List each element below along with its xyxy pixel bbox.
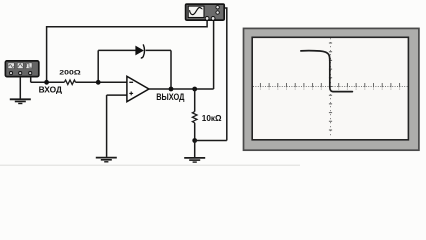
ground (op-amp plus input) [96,158,117,162]
node bottom junction [192,138,197,143]
wire output node down to resistor [194,89,196,112]
ground (below 10кΩ) [184,158,205,162]
wire bottom junction to scope ground lead [195,140,227,142]
svg-text:ВХОД: ВХОД [39,86,63,95]
wire output [149,88,214,90]
wire feedback right vertical [170,50,172,89]
oscilloscope display panel frame [244,28,419,150]
wire resistor to bottom junction [194,123,196,141]
oscilloscope icon XSC1 [186,4,225,20]
wire generator common to ground [19,77,21,99]
wire feedback left vertical [97,50,99,82]
function generator XFG1 [5,61,38,77]
resistor 200Ω [64,80,75,85]
wire input line right part to op-amp [76,81,127,83]
wire op-amp plus input [107,94,127,96]
wire scope ground lead vertical [221,8,227,141]
node feedback-output junction [169,87,174,92]
wire scope probe A: vertical + top horizontal [47,20,208,82]
trace (transfer characteristic) [301,51,353,92]
horizontal axis (ticked) [253,83,408,90]
node output-resistor junction [192,87,197,92]
wire input line left part [31,81,65,83]
ground (below generator) [10,99,31,103]
node feedback-input junction [96,80,101,85]
wire bottom junction to ground [194,141,196,158]
svg-text:200Ω: 200Ω [59,70,81,77]
vertical cursor (dashed) [329,38,332,137]
diode VD1 [136,44,145,58]
op-amp U1 [127,76,149,101]
wire feedback top left segment [98,49,136,51]
node ВХОД junction [44,80,49,85]
svg-text:10кΩ: 10кΩ [202,114,222,123]
resistor 10кΩ [192,112,197,123]
scan artifact line (bottom) [0,165,300,166]
oscilloscope display screen [252,37,408,140]
wire generator + terminal down to input line [30,77,32,83]
wire scope channel B vertical [213,20,215,89]
wire feedback top right segment [146,49,171,51]
svg-text:ВЫХОД: ВЫХОД [156,92,185,102]
wire plus input down to ground [106,95,108,157]
